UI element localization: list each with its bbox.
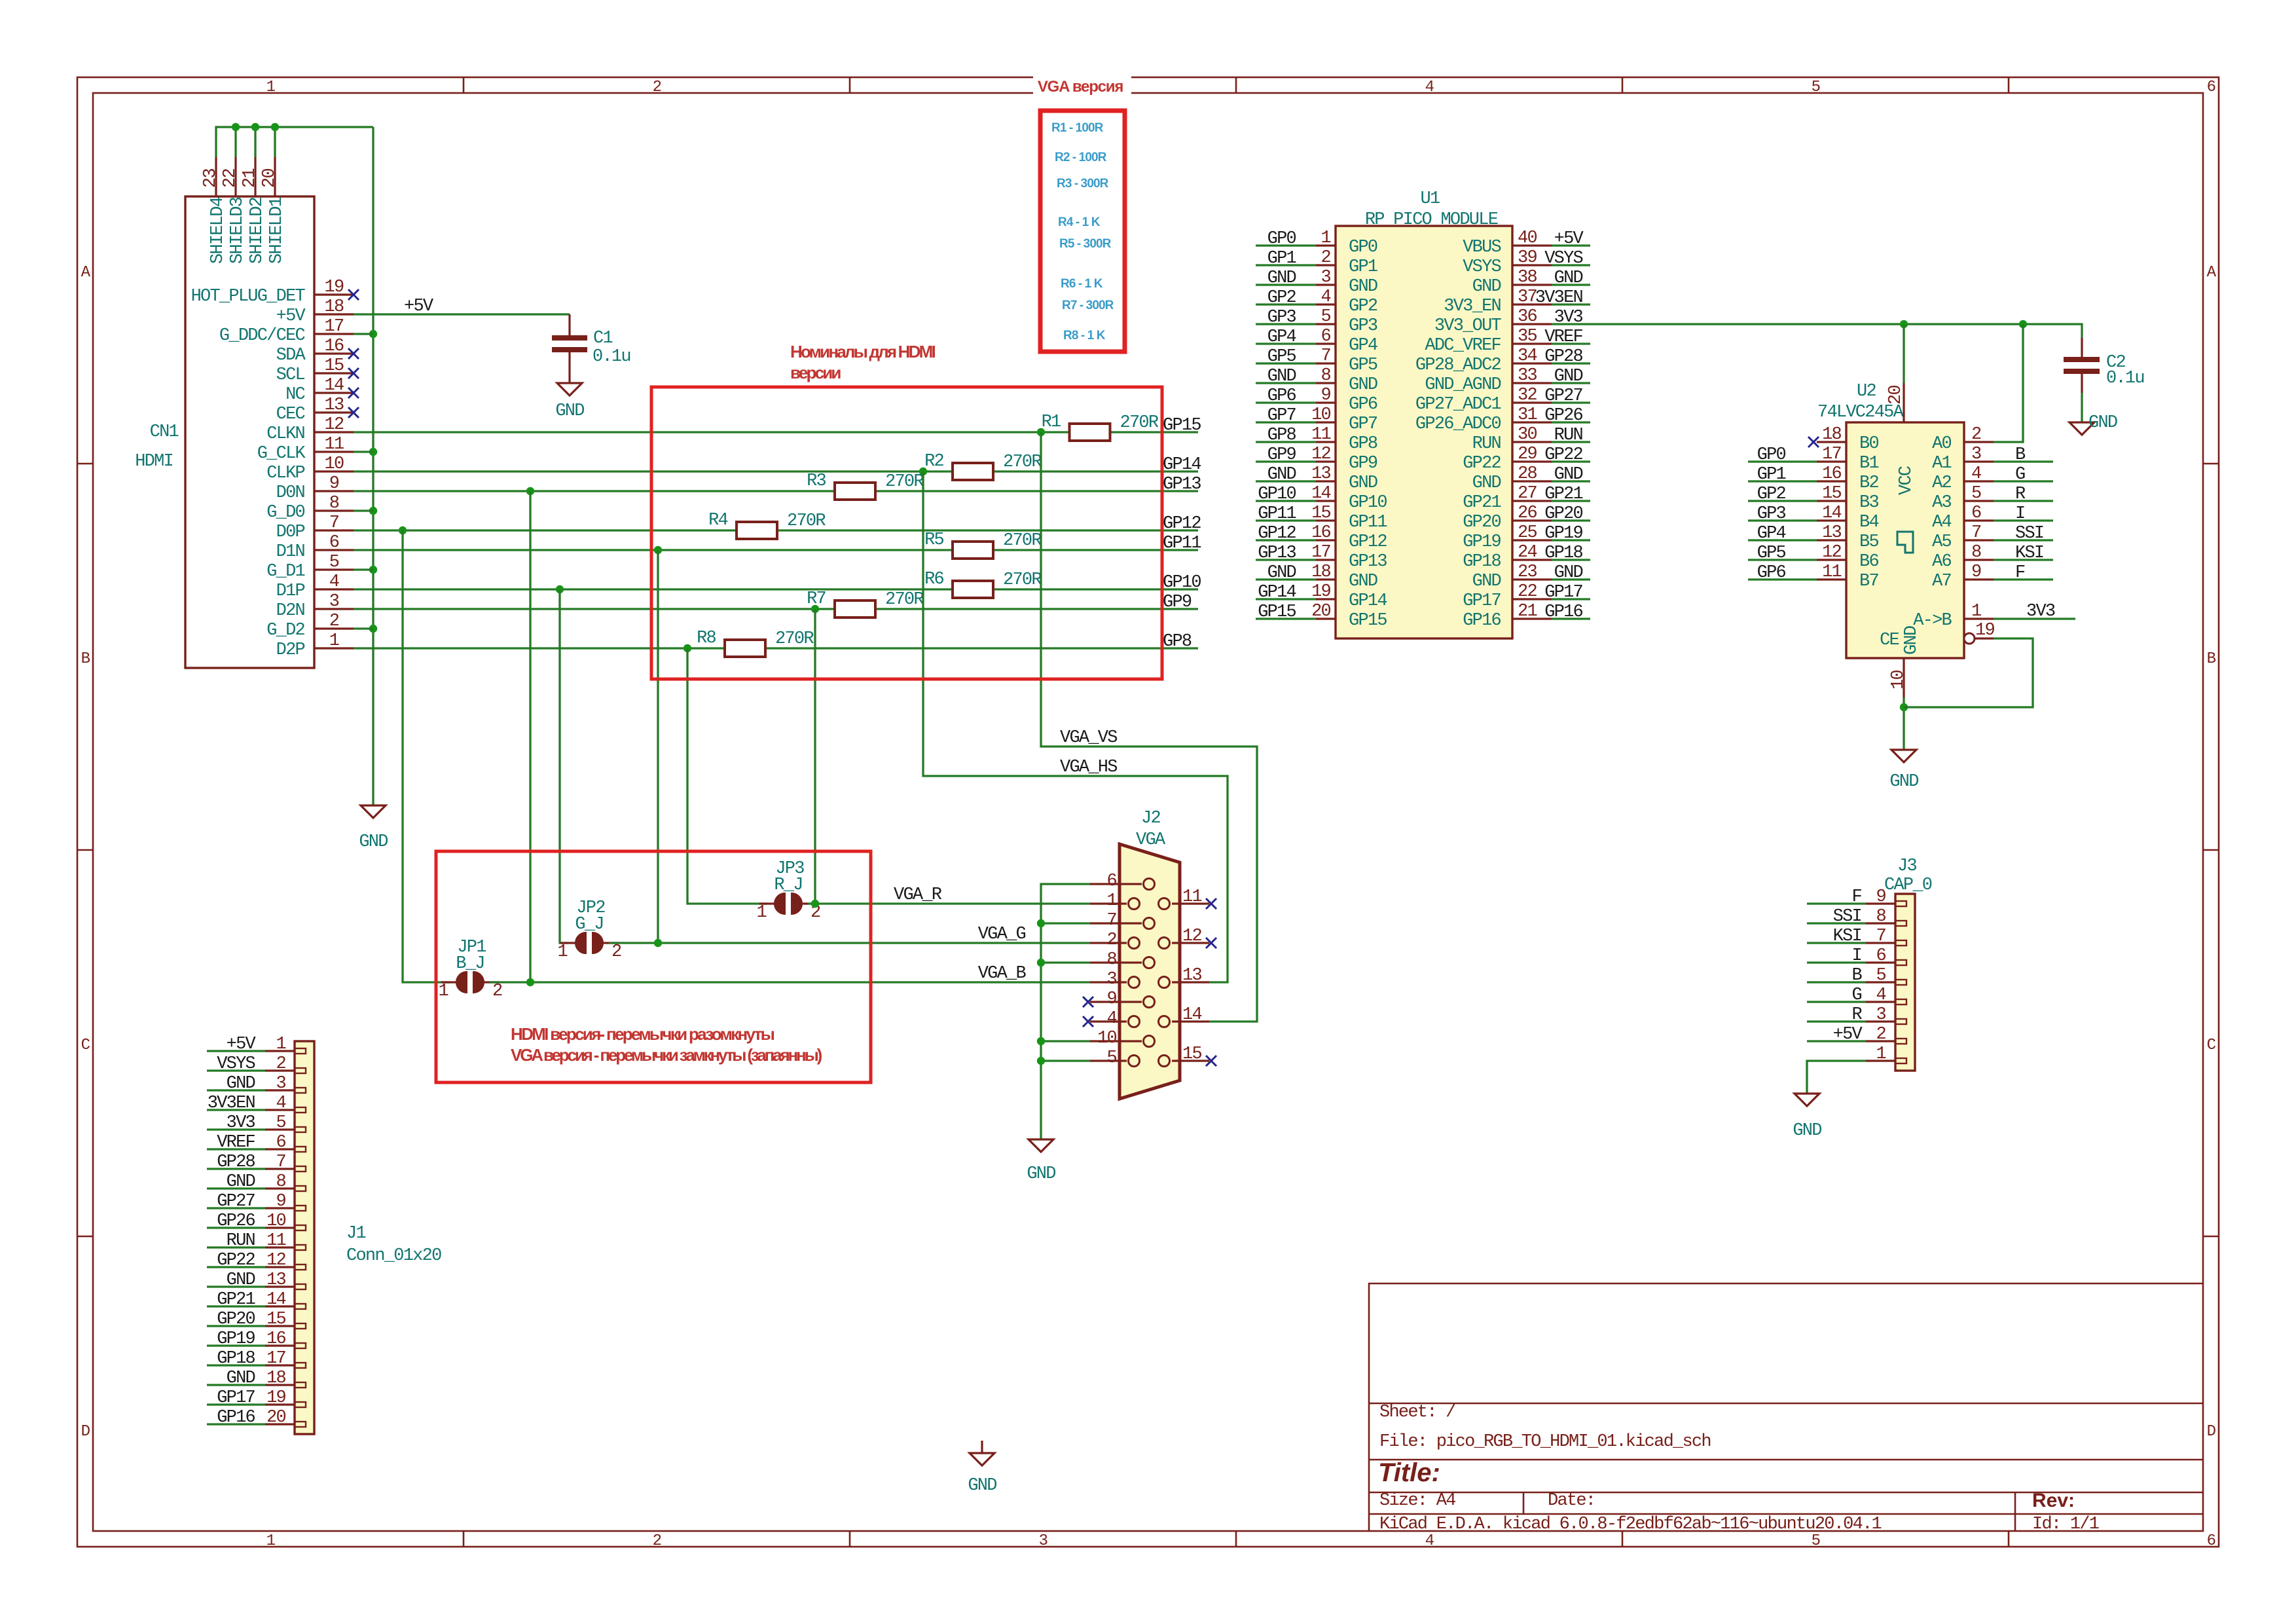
svg-text:GP5: GP5 [1349, 356, 1377, 375]
svg-text:CAP_0: CAP_0 [1884, 876, 1932, 895]
svg-text:GP12: GP12 [1163, 514, 1201, 534]
wire CN1 pin5 G_D1 to rail [354, 568, 373, 570]
svg-text:23: 23 [1518, 563, 1537, 582]
svg-text:GND: GND [227, 1270, 255, 1290]
svg-text:8: 8 [1107, 950, 1117, 970]
U1 right pins 40-21 [1512, 244, 1552, 246]
connector J1 Conn_01x20 [295, 1041, 314, 1434]
svg-text:2: 2 [492, 982, 502, 1001]
J3 pin 7 [1866, 942, 1895, 944]
wire tap D1N to JP2 pin2 junction [657, 550, 659, 943]
svg-text:D0N: D0N [276, 483, 305, 503]
wire U1 pin 3 GND [1256, 284, 1316, 286]
svg-text:11: 11 [1822, 563, 1841, 582]
svg-text:GP21: GP21 [1463, 493, 1501, 513]
svg-text:16: 16 [1311, 523, 1330, 543]
title block [1369, 1283, 2203, 1531]
svg-text:GP19: GP19 [217, 1329, 255, 1349]
svg-text:12: 12 [1311, 445, 1330, 464]
J3 pin 5 [1866, 981, 1895, 983]
wire J1 GND [207, 1187, 265, 1189]
svg-text:F: F [2015, 563, 2025, 583]
wire U2 VCC to 3V3 [1903, 324, 1904, 383]
svg-text:B: B [2015, 445, 2026, 465]
svg-text:270R: 270R [885, 472, 924, 492]
svg-text:B_J: B_J [456, 954, 484, 974]
svg-text:16: 16 [266, 1329, 285, 1349]
svg-text:GP6: GP6 [1349, 395, 1377, 415]
connector J2 VGA [1120, 844, 1180, 1099]
wire U2 GP5 [1748, 559, 1817, 561]
J1 pin 20 GP16 [265, 1423, 295, 1425]
svg-text:B2: B2 [1859, 473, 1878, 493]
J1 pin 2 VSYS [265, 1069, 295, 1071]
wire U2 KSI [1994, 559, 2053, 561]
svg-text:GP12: GP12 [1349, 532, 1387, 552]
svg-text:11: 11 [325, 435, 344, 454]
svg-text:8: 8 [329, 494, 339, 513]
junction JP2 pin2 [654, 939, 662, 947]
svg-text:Size: A4: Size: A4 [1379, 1491, 1455, 1511]
svg-text:GND: GND [555, 401, 584, 421]
svg-text:270R: 270R [787, 511, 826, 531]
svg-text:GP12: GP12 [1258, 524, 1296, 544]
svg-text:35: 35 [1518, 327, 1537, 346]
svg-text:33: 33 [1518, 366, 1537, 386]
svg-text:GP9: GP9 [1267, 445, 1296, 465]
J1 pin 14 GP21 [265, 1305, 295, 1307]
svg-text:2: 2 [1321, 248, 1331, 268]
wire shield bus to GND rail [216, 127, 373, 157]
svg-text:CLKP: CLKP [266, 464, 304, 483]
svg-text:A1: A1 [1932, 454, 1951, 473]
wire J1 GP17 [207, 1403, 265, 1405]
svg-text:RP PICO MODULE: RP PICO MODULE [1365, 210, 1498, 230]
svg-text:GND: GND [2088, 413, 2117, 433]
svg-text:R1: R1 [1042, 413, 1061, 432]
wire VGA_G row JP2 to J2 pin2 [609, 942, 1090, 944]
svg-text:C: C [81, 1037, 90, 1054]
J3 pin 9 [1866, 902, 1895, 904]
wire U1 pin 38 GND [1552, 284, 1590, 286]
ground J3 [1795, 1094, 1819, 1106]
svg-text:4: 4 [276, 1094, 286, 1113]
wire U1 pin 30 RUN [1552, 441, 1590, 443]
svg-text:11: 11 [266, 1231, 285, 1251]
J3 pin 2 [1866, 1040, 1895, 1042]
svg-text:GP15: GP15 [1258, 602, 1296, 622]
resistor R2 270R [924, 452, 1042, 480]
svg-text:GP4: GP4 [1349, 336, 1377, 356]
svg-text:версии: версии [790, 363, 841, 382]
svg-text:F: F [1852, 887, 1862, 907]
wire CN1 pin17 G_DDC/CEC to rail [354, 333, 373, 335]
wire R5 row GP11 [354, 549, 953, 551]
svg-text:22: 22 [1518, 582, 1537, 602]
svg-text:HDMI версия- перемычки разомкн: HDMI версия- перемычки разомкнуты [511, 1024, 774, 1044]
svg-text:14: 14 [1182, 1005, 1201, 1025]
svg-text:GP7: GP7 [1267, 406, 1296, 426]
svg-text:R8: R8 [697, 629, 716, 648]
wire U2 GP3 [1748, 519, 1817, 521]
svg-text:Rev:: Rev: [2032, 1490, 2075, 1511]
svg-text:GP3: GP3 [1757, 504, 1786, 524]
svg-text:G_D0: G_D0 [266, 503, 304, 523]
svg-text:GP10: GP10 [1163, 573, 1201, 593]
svg-text:8: 8 [276, 1172, 286, 1192]
wire R6 row GP10 [354, 588, 953, 590]
resistor R5 270R [924, 530, 1042, 559]
svg-text:GP1: GP1 [1757, 465, 1786, 485]
svg-text:GP19: GP19 [1463, 532, 1501, 552]
svg-text:GP5: GP5 [1757, 544, 1786, 563]
svg-text:GP22: GP22 [1463, 454, 1501, 473]
wire U1 pin 5 GP3 [1256, 323, 1316, 325]
svg-text:6: 6 [1107, 872, 1117, 891]
svg-text:GND: GND [1267, 563, 1296, 583]
svg-text:GP3: GP3 [1267, 308, 1296, 327]
J1 pin 11 RUN [265, 1246, 295, 1248]
annotation box VGA version values [1033, 73, 1131, 101]
wire J1 GP28 [207, 1168, 265, 1170]
svg-text:14: 14 [1822, 504, 1841, 523]
svg-text:GND: GND [1027, 1164, 1055, 1184]
svg-text:1: 1 [558, 942, 568, 962]
wire U1 pin 7 GP5 [1256, 362, 1316, 364]
J2 right pins [1172, 902, 1209, 904]
svg-text:28: 28 [1518, 464, 1537, 484]
svg-text:GP0: GP0 [1757, 445, 1786, 465]
svg-text:SHIELD3: SHIELD3 [228, 197, 247, 264]
wire J3 R [1807, 1020, 1866, 1022]
svg-text:GND: GND [1472, 277, 1501, 297]
svg-text:34: 34 [1518, 346, 1537, 366]
svg-text:3: 3 [1876, 1005, 1886, 1025]
svg-text:GP28: GP28 [1544, 347, 1582, 367]
svg-text:D2N: D2N [276, 601, 305, 621]
svg-text:GND: GND [227, 1074, 255, 1094]
wire U1 pin 24 GP18 [1552, 559, 1590, 561]
wire R1 row GP15 [354, 431, 1070, 433]
svg-text:15: 15 [266, 1310, 285, 1329]
no-connect U2 pin18 B0 [1808, 437, 1819, 447]
svg-text:17: 17 [325, 317, 344, 337]
svg-text:18: 18 [1822, 425, 1841, 445]
svg-text:R5: R5 [924, 530, 943, 550]
svg-text:B: B [1852, 966, 1863, 986]
svg-text:20: 20 [260, 169, 280, 188]
svg-text:GP15: GP15 [1163, 416, 1201, 435]
svg-text:20: 20 [1311, 602, 1330, 621]
IC U2 74LVC245A [1846, 422, 1964, 658]
svg-text:9: 9 [1971, 563, 1981, 582]
junction tap on GP8 row [683, 644, 691, 652]
wire CN1 pin2 G_D2 to rail [354, 627, 373, 629]
J1 pin 15 GP20 [265, 1325, 295, 1327]
wire U2 GP2 [1748, 500, 1817, 502]
wire U1 pin 22 GP17 [1552, 598, 1590, 600]
svg-text:SSI: SSI [1833, 907, 1861, 927]
wire R8 row GP8 [354, 647, 725, 649]
svg-text:5: 5 [276, 1113, 286, 1133]
J2 pin circles [1129, 879, 1170, 1067]
svg-text:40: 40 [1518, 229, 1537, 248]
svg-text:13: 13 [325, 396, 344, 415]
J2 left pins [1090, 883, 1142, 885]
svg-text:KSI: KSI [1833, 927, 1861, 946]
svg-text:3: 3 [1971, 445, 1981, 464]
svg-text:KSI: KSI [2015, 544, 2043, 563]
wire J3 pin1 to gnd [1807, 1061, 1866, 1094]
wire U2 A0 to 3V3 [1994, 324, 2023, 442]
junction JP1 pin2 [526, 978, 534, 986]
svg-text:GP0: GP0 [1349, 238, 1377, 257]
svg-text:CEC: CEC [276, 405, 306, 424]
svg-text:GND: GND [1267, 367, 1296, 386]
svg-text:U2: U2 [1857, 382, 1876, 401]
junction GND rail taps (pins 17,11,8,5,2) [369, 330, 377, 338]
wire J1 GP20 [207, 1325, 265, 1327]
svg-text:GND: GND [359, 832, 388, 852]
svg-text:GP14: GP14 [1258, 583, 1296, 602]
svg-text:4: 4 [1971, 464, 1981, 484]
svg-text:GP13: GP13 [1163, 475, 1201, 494]
ground U2 [1891, 750, 1916, 762]
svg-text:A3: A3 [1932, 493, 1951, 513]
svg-text:RUN: RUN [227, 1231, 255, 1251]
wire U1 pin 16 GP12 [1256, 539, 1316, 541]
svg-text:GP6: GP6 [1267, 386, 1296, 406]
wire U1 pin 28 GND [1552, 480, 1590, 482]
U1 left pins 1-20 [1316, 244, 1336, 246]
wire U1 pin 9 GP6 [1256, 401, 1316, 403]
svg-text:24: 24 [1518, 543, 1537, 563]
svg-text:A->B: A->B [1913, 611, 1952, 631]
J1 pin 17 GP18 [265, 1364, 295, 1366]
wire J1 GP21 [207, 1305, 265, 1307]
wire U1 pin 33 GND [1552, 382, 1590, 384]
annotation box jumpers [436, 851, 871, 1082]
svg-text:1: 1 [1971, 602, 1981, 621]
svg-text:+5V: +5V [1554, 229, 1584, 249]
svg-text:C: C [2207, 1037, 2216, 1054]
svg-text:D2P: D2P [276, 640, 305, 660]
J3 pin 4 [1866, 1001, 1895, 1003]
wire R7 row GP9 [354, 608, 835, 610]
svg-text:6: 6 [1321, 327, 1331, 346]
wire J1 GND [207, 1285, 265, 1287]
svg-text:1: 1 [329, 631, 339, 651]
svg-text:GND: GND [1472, 572, 1501, 591]
svg-text:GND: GND [1267, 465, 1296, 485]
svg-text:B1: B1 [1859, 454, 1878, 473]
wire U1 pin 6 GP4 [1256, 342, 1316, 344]
svg-text:GND: GND [1472, 473, 1501, 493]
svg-text:1: 1 [266, 79, 276, 96]
wire tap D2N to JP3 pin2 junction [814, 609, 816, 904]
svg-text:3V3EN: 3V3EN [208, 1094, 255, 1113]
svg-text:B0: B0 [1859, 434, 1878, 454]
resistor R3 270R [807, 471, 924, 500]
CN1 top pins 23 22 21 20 (SHIELD4..1) [215, 157, 217, 196]
svg-text:9: 9 [329, 474, 339, 494]
svg-text:15: 15 [1182, 1044, 1201, 1064]
wire J1 GP26 [207, 1227, 265, 1228]
svg-text:14: 14 [266, 1290, 285, 1310]
svg-text:2: 2 [653, 79, 661, 96]
J1 pin 1 +5V [265, 1050, 295, 1052]
connector CN1 HDMI [185, 196, 314, 668]
svg-text:2: 2 [276, 1054, 286, 1074]
svg-text:3: 3 [1107, 970, 1117, 989]
svg-text:VCC: VCC [1897, 466, 1916, 495]
wire CN1 pin11 G_CLK to rail [354, 451, 373, 452]
svg-text:G_D1: G_D1 [266, 562, 304, 581]
wire tap D1P to JP2 pin1 [560, 589, 568, 943]
svg-text:Title:: Title: [1378, 1458, 1440, 1487]
svg-text:3: 3 [1039, 1532, 1048, 1550]
svg-text:Sheet: /: Sheet: / [1379, 1403, 1455, 1422]
wire U2 GP6 [1748, 578, 1817, 580]
svg-text:7: 7 [329, 513, 339, 533]
wire J1 3V3 [207, 1128, 265, 1130]
wire R2 row GP14 [354, 470, 953, 472]
ground CN1 rail [361, 805, 386, 818]
svg-text:R1 - 100R: R1 - 100R [1051, 121, 1104, 135]
svg-text:HOT_PLUG_DET: HOT_PLUG_DET [191, 287, 306, 306]
wire U1 pin 25 GP19 [1552, 539, 1590, 541]
svg-text:GP4: GP4 [1267, 327, 1296, 347]
svg-text:GP18: GP18 [1463, 552, 1501, 572]
svg-text:B7: B7 [1859, 572, 1878, 591]
svg-text:10: 10 [325, 454, 344, 474]
svg-text:22: 22 [221, 169, 240, 188]
wire J3 F [1807, 902, 1866, 904]
wire J1 GND [207, 1384, 265, 1386]
svg-text:4: 4 [329, 572, 339, 592]
junction tap on GP15 row [1037, 428, 1045, 436]
svg-text:GP11: GP11 [1258, 504, 1296, 524]
wire U1 pin 18 GND [1256, 578, 1316, 580]
wire U1 pin 19 GP14 [1256, 598, 1316, 600]
svg-text:D1N: D1N [276, 542, 305, 562]
svg-text:0.1u: 0.1u [592, 347, 630, 367]
J3 pin 3 [1866, 1020, 1895, 1022]
svg-text:3V3: 3V3 [2026, 602, 2055, 621]
svg-text:CLKN: CLKN [266, 424, 304, 444]
svg-text:G: G [1852, 986, 1862, 1005]
svg-text:30: 30 [1518, 425, 1537, 445]
J1 pin 18 GND [265, 1384, 295, 1386]
svg-text:R4 - 1 K: R4 - 1 K [1058, 215, 1101, 229]
svg-text:R2 - 100R: R2 - 100R [1055, 151, 1107, 164]
svg-text:GP26: GP26 [1544, 406, 1582, 426]
wire GND rail from shields down left side [372, 127, 374, 805]
svg-text:270R: 270R [885, 590, 924, 610]
svg-text:R7: R7 [807, 589, 826, 609]
wire U1 pin 14 GP10 [1256, 500, 1316, 502]
svg-text:6: 6 [329, 533, 339, 553]
svg-text:12: 12 [1822, 543, 1841, 563]
resistor R1 270R [1042, 413, 1159, 441]
svg-text:GP2: GP2 [1349, 297, 1377, 316]
J3 pin 1 [1866, 1060, 1895, 1061]
svg-text:10: 10 [266, 1211, 285, 1231]
svg-text:A0: A0 [1932, 434, 1951, 454]
svg-text:10: 10 [1097, 1029, 1116, 1048]
junction tap on GP13 row [526, 487, 534, 495]
svg-text:GND: GND [1554, 465, 1583, 485]
svg-text:VREF: VREF [1544, 327, 1582, 347]
CN1 right pins 19..1 [314, 293, 354, 295]
svg-text:11: 11 [1311, 425, 1330, 445]
svg-text:15: 15 [325, 356, 344, 376]
svg-text:R: R [1852, 1005, 1863, 1025]
svg-text:CN1: CN1 [150, 422, 179, 442]
wire VGA_R row JP3 to J2 pin1 [808, 902, 1090, 904]
wire U1 pin 10 GP7 [1256, 421, 1316, 423]
svg-text:7: 7 [1876, 927, 1886, 946]
svg-text:GND_AGND: GND_AGND [1425, 375, 1501, 395]
svg-text:19: 19 [1311, 582, 1330, 602]
svg-text:GP5: GP5 [1267, 347, 1296, 367]
svg-text:+5V: +5V [404, 297, 434, 316]
svg-text:18: 18 [325, 297, 344, 317]
svg-text:1: 1 [439, 982, 448, 1001]
svg-text:13: 13 [1311, 464, 1330, 484]
svg-text:GP3: GP3 [1349, 316, 1377, 336]
junction 3V3 at U2 A0 branch [2019, 320, 2027, 328]
svg-text:29: 29 [1518, 445, 1537, 464]
wire U1 pin 34 GP28 [1552, 362, 1590, 364]
J1 pin 3 GND [265, 1089, 295, 1091]
svg-text:GP13: GP13 [1258, 544, 1296, 563]
svg-text:GP10: GP10 [1349, 493, 1387, 513]
svg-text:3V3: 3V3 [227, 1113, 255, 1133]
svg-text:9: 9 [1107, 989, 1117, 1009]
wire U2 CE to GND [1904, 638, 2033, 707]
svg-text:39: 39 [1518, 248, 1537, 268]
svg-text:R6: R6 [924, 570, 943, 589]
svg-text:GP9: GP9 [1163, 593, 1192, 612]
J1 pin 16 GP19 [265, 1344, 295, 1346]
svg-text:C1: C1 [593, 329, 612, 348]
svg-text:VGA_G: VGA_G [978, 925, 1026, 944]
svg-text:9: 9 [276, 1192, 286, 1211]
svg-text:GP20: GP20 [217, 1310, 255, 1329]
svg-text:11: 11 [1182, 887, 1201, 907]
svg-text:36: 36 [1518, 307, 1537, 327]
junction tap on GP14 row [919, 468, 927, 475]
svg-text:GND: GND [1554, 563, 1583, 583]
svg-text:HDMI: HDMI [135, 452, 173, 471]
svg-text:B6: B6 [1859, 552, 1878, 572]
J1 pin 4 3V3EN [265, 1109, 295, 1111]
svg-text:8: 8 [1876, 907, 1886, 927]
J1 pin 5 3V3 [265, 1128, 295, 1130]
svg-text:G_CLK: G_CLK [257, 444, 306, 464]
svg-text:5: 5 [1876, 966, 1886, 986]
junction 3V3 at U2 VCC [1900, 320, 1908, 328]
svg-text:3: 3 [1321, 268, 1331, 287]
J3 pin 8 [1866, 922, 1895, 924]
jumper JP3 R_J [757, 859, 820, 923]
svg-text:GP22: GP22 [1544, 445, 1582, 465]
svg-text:GP8: GP8 [1349, 434, 1377, 454]
svg-text:13: 13 [1182, 966, 1201, 986]
wire +5V from CN1 pin18 to C1 [354, 313, 570, 315]
svg-text:270R: 270R [1003, 452, 1042, 472]
